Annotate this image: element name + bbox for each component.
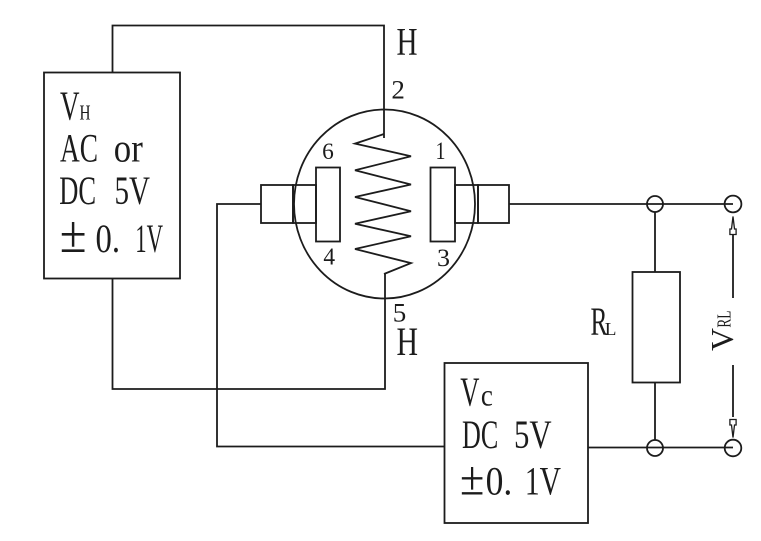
sensor envelope circle bbox=[294, 110, 475, 299]
svg-text:RL: RL bbox=[714, 311, 736, 328]
svg-text:c: c bbox=[481, 377, 493, 412]
svg-text:±: ± bbox=[60, 206, 87, 264]
svg-text:5V: 5V bbox=[115, 168, 151, 213]
wire from left tab to VC bbox=[217, 204, 445, 447]
wire from right tab to output terminals bbox=[509, 203, 733, 205]
terminal node top-left bbox=[647, 196, 663, 212]
svg-text:1V: 1V bbox=[135, 216, 163, 261]
svg-text:3: 3 bbox=[437, 243, 450, 272]
wire bottom from VH to pin 5 bbox=[113, 273, 386, 389]
right tab outer bbox=[478, 185, 509, 223]
right electrode plate bbox=[431, 168, 456, 242]
svg-text:5V: 5V bbox=[514, 412, 552, 457]
wire VC right to bottom terminals bbox=[588, 447, 733, 449]
svg-text:or: or bbox=[114, 126, 143, 171]
svg-text:H: H bbox=[80, 101, 91, 125]
VRL arrowhead down bbox=[730, 420, 736, 438]
svg-text:0.: 0. bbox=[96, 216, 121, 261]
wire RL top lead bbox=[654, 212, 656, 272]
wire top from VH to pin 2 bbox=[113, 26, 385, 139]
svg-text:L: L bbox=[605, 319, 617, 339]
terminal node bottom-left bbox=[647, 440, 663, 456]
svg-text:6: 6 bbox=[322, 139, 334, 164]
svg-text:2: 2 bbox=[391, 76, 405, 105]
voltage source VH box bbox=[44, 73, 180, 279]
svg-text:±: ± bbox=[460, 451, 484, 506]
svg-text:V: V bbox=[704, 328, 740, 351]
svg-text:V: V bbox=[60, 83, 80, 129]
svg-text:AC: AC bbox=[60, 126, 98, 171]
left electrode plate bbox=[316, 168, 340, 242]
svg-text:H: H bbox=[397, 20, 418, 63]
svg-text:1: 1 bbox=[436, 138, 446, 165]
wire RL bottom lead bbox=[654, 383, 656, 441]
svg-text:V: V bbox=[460, 368, 479, 414]
left tab outer bbox=[261, 185, 293, 223]
heater resistor zigzag bbox=[355, 134, 411, 274]
VRL measure line upper segment bbox=[732, 235, 734, 298]
svg-text:1V: 1V bbox=[525, 459, 561, 504]
svg-text:4: 4 bbox=[323, 245, 335, 271]
svg-text:H: H bbox=[397, 319, 419, 364]
resistor RL body bbox=[633, 272, 681, 383]
VRL measure line lower segment bbox=[732, 365, 734, 417]
svg-text:0.: 0. bbox=[486, 459, 513, 504]
voltage source VC box bbox=[445, 363, 589, 523]
right tab inner bbox=[455, 185, 478, 223]
VRL arrowhead up bbox=[730, 217, 736, 235]
terminal node bottom-right bbox=[725, 440, 742, 457]
terminal node top-right bbox=[725, 196, 742, 213]
label VRL rotated bbox=[704, 311, 740, 351]
left tab inner bbox=[293, 185, 316, 223]
